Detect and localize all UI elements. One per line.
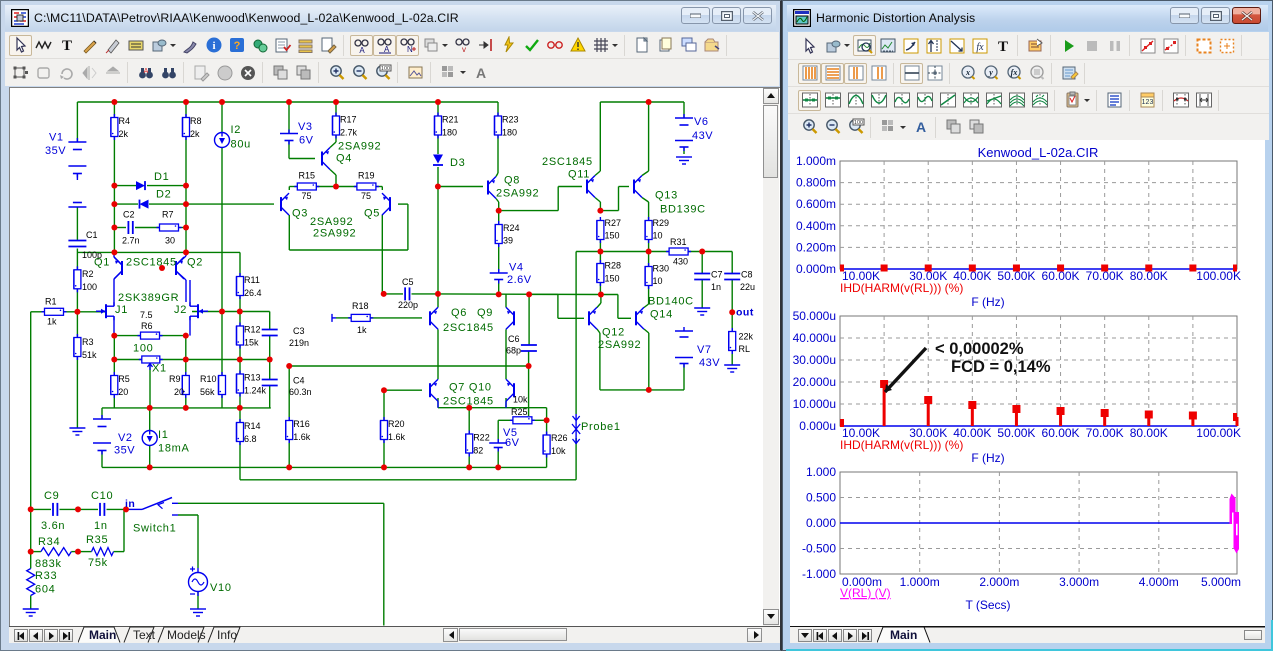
svg-text:123: 123 (1141, 99, 1153, 106)
svg-text:70.00K: 70.00K (1086, 269, 1124, 283)
svg-text:75k: 75k (88, 557, 108, 569)
svg-text:1n: 1n (94, 520, 108, 532)
svg-text:Main: Main (890, 628, 917, 642)
svg-text:C4: C4 (293, 376, 305, 386)
svg-text:0.200m: 0.200m (796, 240, 836, 254)
svg-text:430: 430 (673, 257, 688, 267)
svg-text:1.000m: 1.000m (900, 575, 940, 589)
svg-text:V1: V1 (49, 132, 63, 144)
svg-text:C6: C6 (508, 334, 520, 344)
svg-text:Q3: Q3 (292, 208, 308, 220)
svg-text:0.800m: 0.800m (796, 176, 836, 190)
svg-text:40.000u: 40.000u (793, 331, 836, 345)
svg-text:180: 180 (442, 128, 457, 138)
svg-text:10.000u: 10.000u (793, 397, 836, 411)
svg-text:100.00K: 100.00K (1196, 426, 1241, 440)
svg-text:1.24k: 1.24k (244, 386, 267, 396)
svg-text:Main: Main (89, 628, 116, 642)
svg-text:100: 100 (133, 343, 153, 355)
svg-text:BD140C: BD140C (648, 296, 694, 308)
svg-text:82: 82 (473, 446, 483, 456)
svg-text:-0.500: -0.500 (802, 542, 836, 556)
svg-text:1n: 1n (711, 282, 721, 292)
svg-text:V7: V7 (697, 344, 711, 356)
svg-text:2SA992: 2SA992 (496, 188, 539, 200)
svg-text:Q12: Q12 (602, 327, 625, 339)
svg-text:50.000u: 50.000u (793, 309, 836, 323)
svg-text:R10: R10 (200, 374, 217, 384)
svg-text:R15: R15 (299, 171, 316, 181)
svg-text:60.00K: 60.00K (1042, 269, 1080, 283)
svg-text:43V: 43V (699, 357, 720, 369)
svg-text:FCD = 0,14%: FCD = 0,14% (951, 358, 1051, 376)
svg-text:R25: R25 (511, 407, 528, 417)
svg-text:Q5: Q5 (364, 208, 380, 220)
svg-text:100: 100 (82, 282, 97, 292)
svg-text:35V: 35V (114, 445, 135, 457)
svg-text:D2: D2 (156, 189, 171, 201)
svg-text:J1: J1 (115, 304, 128, 316)
svg-text:v: v (462, 45, 466, 54)
svg-text:883k: 883k (35, 558, 62, 570)
svg-text:R1: R1 (45, 296, 57, 306)
svg-text:3.6n: 3.6n (41, 520, 65, 532)
svg-text:219n: 219n (289, 338, 309, 348)
svg-text:in: in (125, 498, 135, 510)
svg-text:22k: 22k (739, 332, 754, 342)
svg-text:56k: 56k (200, 387, 215, 397)
svg-text:out: out (736, 307, 754, 319)
svg-text:20: 20 (118, 387, 128, 397)
svg-text:A: A (915, 119, 925, 135)
svg-text:2SA992: 2SA992 (598, 339, 641, 351)
svg-text:R20: R20 (388, 419, 405, 429)
svg-text:y: y (988, 68, 993, 77)
svg-text:X1: X1 (152, 363, 167, 375)
svg-text:4.000m: 4.000m (1139, 575, 1179, 589)
svg-text:R8: R8 (190, 116, 202, 126)
svg-text:15k: 15k (244, 338, 259, 348)
svg-text:x: x (965, 68, 970, 77)
svg-text:< 0,00002%: < 0,00002% (935, 340, 1024, 358)
svg-text:R27: R27 (605, 218, 622, 228)
svg-text:V4: V4 (509, 262, 523, 274)
svg-text:J2: J2 (174, 304, 187, 316)
svg-text:Info: Info (217, 628, 237, 642)
svg-text:C2: C2 (123, 210, 135, 220)
svg-text:R7: R7 (162, 210, 174, 220)
svg-text:I1: I1 (158, 429, 169, 441)
svg-text:Q8: Q8 (504, 175, 520, 187)
svg-text:Q1: Q1 (94, 257, 110, 269)
svg-text:R35: R35 (86, 534, 108, 546)
svg-text:2SC1845: 2SC1845 (443, 322, 494, 334)
svg-text:68p: 68p (506, 346, 521, 356)
svg-text:10: 10 (653, 276, 663, 286)
svg-text:R33: R33 (35, 570, 57, 582)
svg-text:51k: 51k (82, 350, 97, 360)
svg-text:Q7 Q10: Q7 Q10 (449, 382, 492, 394)
svg-text:20.000u: 20.000u (793, 375, 836, 389)
svg-text:2SK389GR: 2SK389GR (118, 292, 179, 304)
svg-text:2.7n: 2.7n (122, 236, 140, 246)
svg-text:2SA992: 2SA992 (310, 216, 353, 228)
svg-text:10: 10 (653, 231, 663, 241)
svg-text:R9: R9 (169, 374, 181, 384)
svg-text:Text: Text (133, 628, 156, 642)
svg-text:10k: 10k (513, 395, 528, 405)
svg-text:R2: R2 (82, 269, 94, 279)
svg-text:V2: V2 (118, 432, 132, 444)
svg-text:Q9: Q9 (477, 307, 493, 319)
svg-text:D1: D1 (154, 171, 169, 183)
svg-text:R16: R16 (293, 419, 310, 429)
svg-text:R30: R30 (653, 264, 670, 274)
svg-text:R11: R11 (244, 275, 260, 285)
svg-text:6.8: 6.8 (244, 434, 257, 444)
svg-text:Kenwood_L-02a.CIR: Kenwood_L-02a.CIR (978, 145, 1099, 160)
svg-text:100: 100 (380, 66, 389, 72)
svg-text:2.7k: 2.7k (340, 128, 358, 138)
svg-text:fx: fx (976, 42, 984, 53)
svg-text:V10: V10 (210, 582, 232, 594)
svg-text:R5: R5 (118, 374, 130, 384)
svg-text:18mA: 18mA (158, 443, 190, 455)
svg-text:Q4: Q4 (336, 153, 352, 165)
svg-text:R29: R29 (653, 218, 670, 228)
svg-text:3.000m: 3.000m (1059, 575, 1099, 589)
svg-text:5.000m: 5.000m (1201, 575, 1241, 589)
svg-text:2k: 2k (119, 129, 129, 139)
svg-text:0.000u: 0.000u (799, 419, 836, 433)
svg-text:fx: fx (1010, 68, 1017, 77)
svg-text:1.6k: 1.6k (388, 432, 406, 442)
svg-text:R22: R22 (473, 433, 490, 443)
svg-text:43V: 43V (692, 130, 713, 142)
svg-text:2.000m: 2.000m (979, 575, 1019, 589)
svg-text:C3: C3 (293, 326, 305, 336)
svg-text:35V: 35V (45, 145, 66, 157)
svg-text:6V: 6V (505, 437, 520, 449)
svg-text:Q2: Q2 (187, 257, 203, 269)
svg-text:50.00K: 50.00K (997, 426, 1035, 440)
svg-text:RL: RL (739, 344, 751, 354)
svg-text:A: A (359, 46, 365, 54)
svg-text:R4: R4 (119, 116, 131, 126)
svg-text:60.00K: 60.00K (1042, 426, 1080, 440)
svg-text:A: A (475, 65, 485, 81)
svg-text:i: i (212, 40, 215, 52)
svg-text:R6: R6 (141, 321, 153, 331)
svg-text:2.6V: 2.6V (507, 274, 532, 286)
svg-text:R17: R17 (340, 115, 357, 125)
svg-text:75: 75 (361, 191, 371, 201)
svg-text:220p: 220p (398, 300, 418, 310)
svg-text:F (Hz): F (Hz) (971, 295, 1004, 309)
svg-text:6V: 6V (299, 135, 314, 147)
svg-text:F (Hz): F (Hz) (971, 451, 1004, 465)
svg-text:V(RL) (V): V(RL) (V) (840, 586, 891, 600)
svg-text:2SA992: 2SA992 (313, 228, 356, 240)
svg-text:R18: R18 (352, 301, 369, 311)
svg-text:100: 100 (853, 120, 862, 126)
svg-text:Q13: Q13 (655, 190, 678, 202)
svg-text:C8: C8 (741, 270, 753, 280)
svg-text:604: 604 (35, 584, 55, 596)
svg-text:1.6k: 1.6k (293, 432, 311, 442)
svg-text:R26: R26 (551, 433, 568, 443)
svg-text:R24: R24 (503, 223, 520, 233)
svg-text:R31: R31 (670, 237, 687, 247)
svg-text:0.500: 0.500 (806, 491, 836, 505)
svg-text:V6: V6 (694, 116, 708, 128)
svg-text:7.5: 7.5 (140, 310, 153, 320)
svg-text:26.4: 26.4 (244, 288, 262, 298)
svg-text:1k: 1k (357, 325, 367, 335)
svg-text:80.00K: 80.00K (1130, 426, 1168, 440)
svg-text:R13: R13 (244, 373, 261, 383)
svg-text:Switch1: Switch1 (133, 523, 176, 535)
svg-text:C10: C10 (91, 490, 113, 502)
svg-text:2SC1845: 2SC1845 (542, 156, 593, 168)
svg-text:30: 30 (165, 236, 175, 246)
svg-text:0.400m: 0.400m (796, 219, 836, 233)
svg-text:50.00K: 50.00K (997, 269, 1035, 283)
svg-text:C5: C5 (402, 277, 414, 287)
svg-text:60.3n: 60.3n (289, 387, 312, 397)
svg-text:R3: R3 (82, 337, 94, 347)
svg-text:IHD(HARM(v(RL))) (%): IHD(HARM(v(RL))) (%) (840, 281, 963, 295)
svg-text:1.000m: 1.000m (796, 154, 836, 168)
svg-text:D3: D3 (450, 157, 465, 169)
svg-text:T: T (61, 38, 71, 54)
svg-text:75: 75 (302, 191, 312, 201)
svg-text:2SC1845: 2SC1845 (443, 396, 494, 408)
svg-text:Q11: Q11 (568, 169, 590, 181)
svg-text:Probe1: Probe1 (581, 421, 621, 433)
svg-text:100.00K: 100.00K (1196, 269, 1241, 283)
svg-text:80.00K: 80.00K (1130, 269, 1168, 283)
svg-text:R28: R28 (605, 261, 622, 271)
svg-text:V3: V3 (298, 121, 312, 133)
svg-text:150: 150 (605, 231, 620, 241)
svg-text:IHD(HARM(v(RL))) (%): IHD(HARM(v(RL))) (%) (840, 438, 963, 452)
svg-text:C7: C7 (711, 270, 723, 280)
svg-text:1.000: 1.000 (806, 465, 836, 479)
svg-text:BD139C: BD139C (660, 204, 706, 216)
svg-text:150: 150 (605, 274, 620, 284)
svg-text:I2: I2 (231, 124, 242, 136)
svg-text:80u: 80u (231, 139, 251, 151)
svg-text:2SA992: 2SA992 (338, 141, 381, 153)
svg-text:T (Secs): T (Secs) (965, 598, 1010, 612)
svg-text:C1: C1 (86, 230, 98, 240)
svg-text:Models: Models (167, 628, 206, 642)
svg-text:2k: 2k (190, 129, 200, 139)
svg-text:R21: R21 (442, 115, 459, 125)
svg-text:30.000u: 30.000u (793, 353, 836, 367)
svg-text:C9: C9 (44, 490, 59, 502)
svg-text:0.000m: 0.000m (796, 262, 836, 276)
svg-text:70.00K: 70.00K (1086, 426, 1124, 440)
svg-text:R12: R12 (244, 325, 261, 335)
svg-text:R19: R19 (358, 171, 375, 181)
svg-text:22u: 22u (740, 282, 755, 292)
svg-text:?: ? (233, 40, 240, 52)
svg-text:R23: R23 (502, 115, 519, 125)
svg-text:R34: R34 (38, 536, 60, 548)
svg-text:A: A (143, 68, 148, 75)
svg-text:0.000: 0.000 (806, 516, 836, 530)
svg-text:0.600m: 0.600m (796, 197, 836, 211)
svg-text:R14: R14 (244, 421, 261, 431)
svg-text:180: 180 (502, 128, 517, 138)
svg-text:T: T (997, 39, 1007, 55)
svg-text:39: 39 (503, 236, 513, 246)
svg-text:Q14: Q14 (650, 309, 673, 321)
svg-text:Q6: Q6 (451, 307, 467, 319)
svg-text:1k: 1k (47, 316, 57, 326)
svg-text:20: 20 (174, 387, 184, 397)
svg-text:2SC1845: 2SC1845 (126, 257, 177, 269)
svg-text:10k: 10k (551, 446, 566, 456)
svg-text:-1.000: -1.000 (802, 567, 836, 581)
